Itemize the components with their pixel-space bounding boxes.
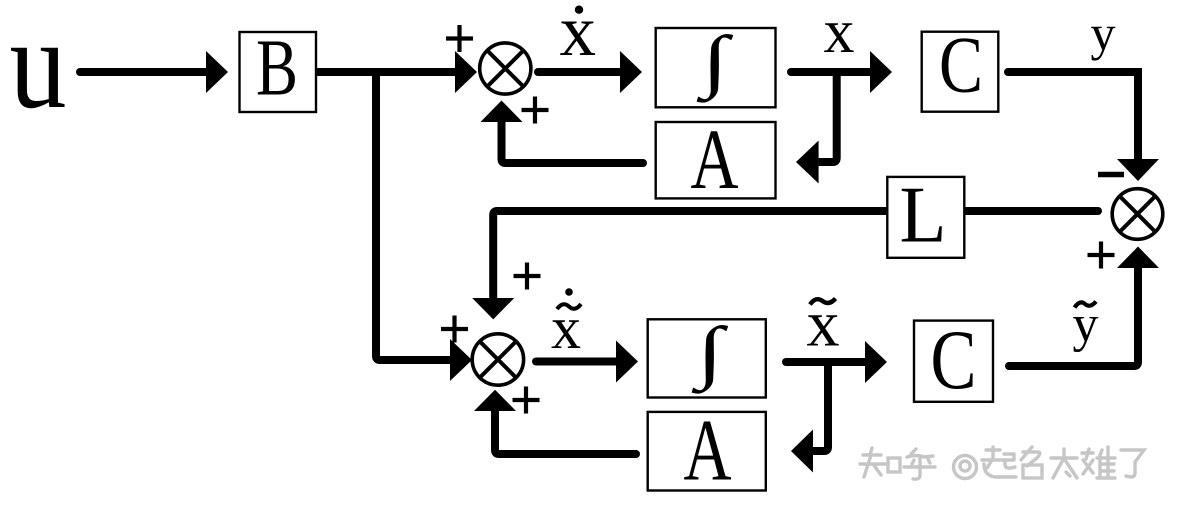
- svg-text:u: u: [10, 0, 67, 135]
- watermark zhihu text: [860, 447, 1144, 479]
- svg-text:∫: ∫: [691, 314, 728, 394]
- block integrator I2: [648, 319, 766, 397]
- wire C1 to summing junction S2 (y path): [1008, 72, 1138, 159]
- watermark char ming: [1021, 447, 1042, 478]
- svg-text:C: C: [939, 22, 983, 110]
- watermark char at: [954, 456, 977, 479]
- summing junction S2: [1112, 189, 1163, 240]
- block B: [240, 32, 317, 112]
- wire A1 feedback to S1 bottom: [502, 122, 644, 163]
- wire I2 to C2: [786, 358, 865, 366]
- block A1: [656, 122, 776, 198]
- wire branch from x down into A1: [819, 72, 837, 162]
- svg-text:A: A: [691, 111, 739, 207]
- watermark char qi: [982, 447, 1016, 477]
- plus sign at S2 bottom input: [1088, 242, 1115, 269]
- wire u to B: [80, 68, 206, 76]
- wire S3 to integrator I2: [536, 358, 616, 366]
- summing junction S1: [480, 43, 531, 94]
- block C2: [914, 321, 993, 402]
- svg-text:A: A: [684, 403, 732, 500]
- plus sign at S1 bottom input: [522, 97, 549, 124]
- svg-text:∫: ∫: [696, 23, 733, 103]
- svg-text:y: y: [1091, 5, 1116, 61]
- svg-text:C: C: [931, 313, 977, 407]
- arrowhead of L wire pointing down into S3: [472, 298, 514, 319]
- block C1: [922, 32, 999, 112]
- wire S2 to L and onward to corner above S3: [493, 211, 1098, 298]
- wire S1 to integrator I1: [538, 68, 620, 76]
- block L: [887, 177, 964, 258]
- minus sign at S2 top input: [1098, 172, 1124, 178]
- watermark char zhi: [860, 448, 900, 477]
- watermark char nan: [1082, 447, 1115, 478]
- watermark char hu: [904, 449, 935, 479]
- watermark char le: [1121, 450, 1144, 477]
- svg-text:L: L: [900, 172, 947, 260]
- plus sign at S3 bottom input: [513, 387, 540, 414]
- watermark char tai: [1051, 449, 1077, 478]
- plus sign at S1 left input: [446, 25, 473, 52]
- wire I1 to C1: [791, 68, 870, 76]
- summing junction S3: [472, 334, 523, 385]
- wire branch from B output down to summing junction S3: [376, 72, 450, 360]
- block integrator I1: [656, 28, 776, 107]
- wire A2 feedback to S3 bottom: [495, 411, 636, 454]
- wire B to summing junction S1: [316, 68, 455, 76]
- svg-text:B: B: [256, 25, 298, 113]
- wire branch from xtilde down into A2: [813, 362, 828, 451]
- wire C2 to S2 bottom (ytilde path): [1009, 268, 1138, 366]
- plus sign at S3 top input: [514, 263, 541, 290]
- svg-text:x: x: [824, 0, 855, 66]
- plus sign at S3 left input: [441, 316, 468, 343]
- block A2: [648, 412, 766, 491]
